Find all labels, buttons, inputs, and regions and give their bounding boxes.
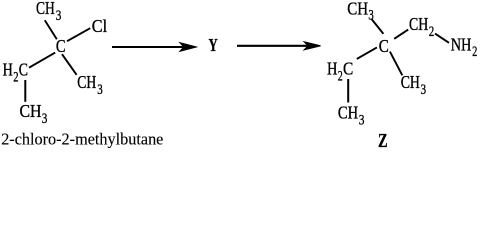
bond C2 to H2C (right) (357, 47, 377, 59)
bond C2 to Cl (left) (67, 28, 90, 41)
svg-text:NH: NH (451, 35, 472, 55)
svg-text:H: H (327, 58, 337, 78)
reaction arrow 2 (237, 42, 321, 50)
svg-text:CH: CH (77, 72, 96, 92)
svg-text:3: 3 (97, 81, 103, 98)
methyl group CH3 (bottom of left structure) (20, 101, 48, 127)
bond C2 to CH2 (right) (394, 30, 408, 39)
svg-text:2-chloro-2-methylbutane: 2-chloro-2-methylbutane (1, 130, 163, 149)
svg-text:3: 3 (42, 110, 48, 127)
bond C2 to H2C (left) (29, 53, 55, 68)
svg-text:2: 2 (13, 69, 18, 86)
svg-text:Z: Z (378, 130, 388, 151)
svg-text:2: 2 (429, 23, 435, 40)
svg-text:C: C (19, 60, 28, 80)
svg-text:C: C (379, 36, 389, 56)
methylene H2C (left structure) (3, 60, 28, 86)
svg-text:CH: CH (401, 72, 420, 92)
svg-text:Cl: Cl (92, 16, 107, 36)
svg-text:CH: CH (347, 0, 368, 19)
svg-text:H: H (3, 60, 13, 80)
svg-text:Y: Y (209, 35, 218, 55)
svg-text:3: 3 (56, 7, 62, 24)
svg-text:C: C (56, 36, 66, 56)
methyl group CH3 (top of right structure) (347, 0, 374, 24)
reaction arrow 1 (112, 43, 196, 51)
bond C2 to lower-right CH3 (right) (390, 52, 402, 76)
svg-text:CH: CH (338, 103, 358, 123)
methylene CH2 (right structure) (409, 14, 434, 40)
bond CH2 to NH2 (435, 34, 449, 43)
bond C2 to lower-right CH3 (left) (62, 54, 77, 75)
svg-text:3: 3 (421, 81, 427, 98)
methyl group CH3 (lower right of right structure) (401, 72, 426, 98)
bond C2 to top CH3 (left) (45, 20, 57, 39)
svg-text:2: 2 (472, 43, 477, 60)
methyl group CH3 (lower right of left structure) (77, 72, 102, 98)
amine group NH2 (451, 35, 478, 61)
svg-text:CH: CH (20, 101, 42, 121)
svg-text:3: 3 (359, 112, 365, 129)
methylene H2C (right structure) (327, 58, 353, 84)
bond H2C to bottom CH3 (right, vertical) (347, 79, 349, 103)
svg-text:CH: CH (409, 14, 428, 34)
methyl group CH3 (top of left structure) (36, 0, 61, 24)
bond C2 to top CH3 (right) (372, 19, 384, 34)
methyl group CH3 (bottom of right structure) (338, 103, 365, 129)
bond H2C to bottom CH3 (left, vertical) (24, 80, 26, 102)
svg-text:C: C (343, 58, 353, 78)
svg-text:CH: CH (36, 0, 55, 18)
